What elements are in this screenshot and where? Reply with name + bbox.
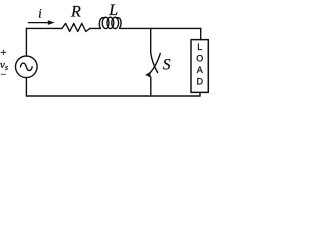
source sine wave	[20, 63, 32, 71]
source Vs circle	[15, 56, 37, 78]
svg-text:L: L	[197, 42, 202, 52]
svg-text:A: A	[197, 65, 203, 75]
wire left vertical bottom (source bottom lead)	[25, 78, 27, 96]
resistor R	[62, 23, 90, 31]
svg-text:i: i	[38, 6, 42, 21]
wire load bottom lead	[199, 92, 201, 96]
svg-text:D: D	[196, 77, 203, 87]
svg-text:O: O	[196, 53, 203, 63]
svg-text:R: R	[70, 3, 81, 20]
wire resistor to inductor	[90, 27, 100, 29]
inductor L	[99, 17, 121, 28]
switch arrowhead	[145, 71, 151, 77]
switch arrow line	[150, 53, 160, 72]
switch blade	[151, 53, 158, 73]
switch branch bottom wire	[150, 77, 152, 96]
svg-text:−: −	[1, 70, 7, 81]
wire top rail left segment	[26, 27, 62, 29]
wire load top lead	[200, 28, 202, 39]
wire inductor to top-right corner	[120, 27, 201, 29]
current arrowhead	[48, 20, 55, 25]
current arrow line	[28, 22, 48, 24]
svg-text:+: +	[0, 47, 6, 59]
svg-text:S: S	[163, 57, 171, 74]
wire left vertical top (source top lead)	[25, 28, 27, 56]
load box	[191, 40, 208, 93]
load text	[196, 42, 203, 87]
svg-text:L: L	[108, 2, 118, 19]
switch branch top wire	[150, 28, 152, 52]
wire bottom rail	[26, 95, 200, 97]
